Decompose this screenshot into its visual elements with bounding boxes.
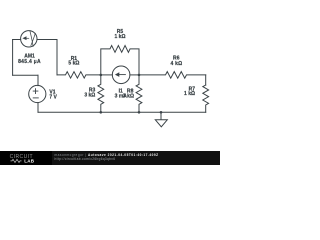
ammeter arrowhead (22, 36, 26, 40)
ammeter glyph A stroke 1 (30, 31, 33, 46)
svg-text:3 mA: 3 mA (115, 93, 128, 99)
wire left drop (12, 40, 14, 76)
V1 plus (33, 89, 38, 94)
wire to V1 top (37, 75, 39, 85)
I1 arrow shaft (118, 74, 126, 76)
svg-text:1 kΩ: 1 kΩ (184, 91, 195, 97)
resistor R1 (57, 72, 101, 78)
footer bar (0, 151, 220, 165)
resistor R8 (136, 75, 142, 112)
wire right drop to R1 (56, 40, 58, 75)
svg-text:LAB: LAB (24, 159, 34, 164)
ammeter glyph A stroke 2 (31, 33, 35, 45)
wire ammeter right lead (37, 39, 57, 41)
resistor R6 (139, 72, 206, 79)
current source I1 (112, 66, 130, 84)
wire node A to I1 (101, 74, 113, 76)
wire R6 to R7 corner (205, 75, 207, 85)
I1 arrowhead (115, 72, 119, 77)
wire ammeter left lead (13, 39, 21, 41)
V1 minus (33, 97, 38, 99)
svg-text:http://circuitlab.com/c26bg6q3: http://circuitlab.com/c26bg6q3qbv6 (55, 157, 116, 161)
wire loop bottom (13, 74, 38, 76)
resistor R5 with loop legs (101, 46, 139, 75)
junction R8 bottom (138, 111, 141, 114)
wire bottom rail (38, 111, 206, 113)
junction R3 bottom (100, 111, 103, 114)
ground (155, 112, 167, 127)
svg-text:845.4 µA: 845.4 µA (18, 59, 41, 65)
logo zigzag (11, 159, 22, 162)
resistor R7 (203, 85, 209, 112)
svg-text:3 kΩ: 3 kΩ (84, 92, 95, 98)
resistor R3 (98, 75, 104, 112)
junction ground (160, 111, 163, 114)
junction node A (100, 74, 103, 77)
ammeter AM1 (21, 31, 37, 47)
svg-text:4 kΩ: 4 kΩ (171, 61, 183, 67)
svg-text:7 V: 7 V (49, 94, 57, 100)
ammeter glyph arrow (26, 37, 29, 39)
voltage source V1 (29, 85, 46, 102)
junction node B (138, 74, 141, 77)
svg-text:5 kΩ: 5 kΩ (68, 60, 79, 66)
wire V1 bottom stem (37, 103, 39, 113)
svg-text:1 kΩ: 1 kΩ (115, 34, 126, 40)
wire I1 to node B (130, 74, 139, 76)
